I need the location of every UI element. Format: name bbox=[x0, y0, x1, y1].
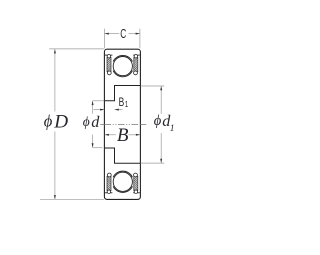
left seal strip (hatched) bbox=[107, 57, 111, 71]
left seal bottom lip curl bbox=[107, 71, 111, 75]
bore profile bottom (mirror) bbox=[104, 148, 140, 163]
svg-text:C: C bbox=[120, 27, 126, 41]
outer ring bore line right bbox=[133, 54, 140, 56]
dimension B1: right outside arrow bbox=[115, 109, 123, 111]
left seal top anchor curl bbox=[107, 55, 110, 58]
dimension phi-d: extension lines bbox=[93, 100, 105, 102]
svg-text:1: 1 bbox=[170, 124, 175, 134]
dimension phi-d1: vertical line segments bbox=[160, 86, 162, 114]
dimension phi-D: extension lines bbox=[49, 48, 104, 50]
dimension phi-d: vertical line segments bbox=[92, 101, 94, 114]
dimension B: arrowheads bbox=[105, 134, 109, 136]
dimension C: line segments bbox=[105, 33, 120, 35]
centerline (axis) bbox=[100, 123, 104, 125]
dimension C: extension ticks bbox=[104, 29, 106, 49]
outer raceway arc bbox=[113, 55, 132, 61]
dimension phi-d1: arrowheads bbox=[160, 86, 162, 90]
dimension C: arrowheads bbox=[105, 33, 109, 35]
svg-text:ϕd: ϕd bbox=[83, 113, 101, 131]
inner raceway arc bbox=[113, 71, 132, 77]
dimension phi-d1: extension lines bbox=[141, 85, 165, 87]
dimension phi-d: arrowheads bbox=[92, 101, 94, 105]
bearing outer outline (rounded rect, outer ring OD and faces) bbox=[104, 49, 140, 199]
svg-text:B: B bbox=[117, 125, 129, 146]
dimension B: line segments bbox=[105, 134, 116, 136]
svg-text:ϕd: ϕd bbox=[154, 112, 172, 130]
right seal top anchor curl bbox=[134, 55, 137, 58]
svg-text:ϕD: ϕD bbox=[44, 111, 68, 132]
top half internals bbox=[105, 55, 140, 77]
svg-text:1: 1 bbox=[125, 99, 128, 109]
outer ring bore line left bbox=[105, 54, 112, 56]
ball bbox=[113, 57, 132, 76]
right seal strip (hatched) bbox=[134, 57, 138, 71]
svg-text:B: B bbox=[119, 97, 125, 110]
bottom half internals (mirror of top) bbox=[105, 171, 140, 193]
dimension phi-D: vertical line segments bbox=[54, 49, 56, 111]
bore profile top (d land, step, d1 counterbore surface) bbox=[104, 86, 140, 101]
dimension B1: left outside arrow bbox=[94, 109, 105, 111]
right seal bottom lip curl bbox=[134, 71, 138, 75]
dimension phi-D: arrowheads bbox=[54, 49, 56, 53]
